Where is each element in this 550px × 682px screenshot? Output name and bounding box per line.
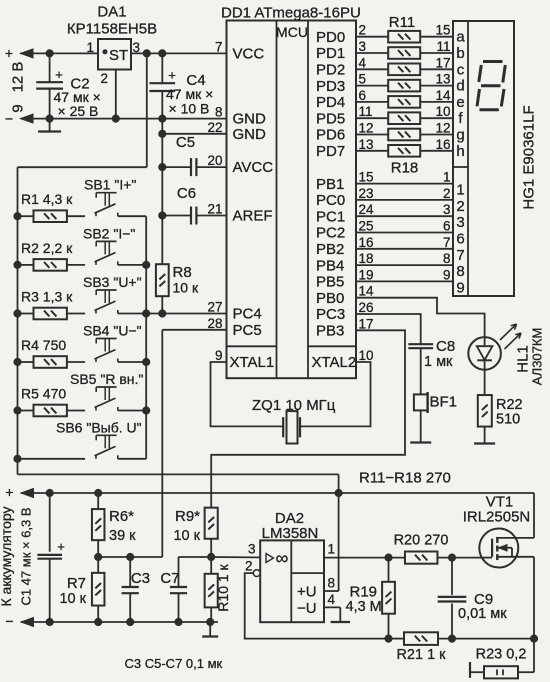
svg-text:20: 20	[207, 153, 222, 168]
svg-text:5: 5	[359, 72, 367, 87]
svg-text:8: 8	[456, 263, 464, 280]
svg-text:3: 3	[443, 202, 451, 217]
svg-text:9: 9	[456, 279, 464, 296]
svg-text:R5 470: R5 470	[21, 386, 66, 402]
svg-text:HG1 E90361LF: HG1 E90361LF	[521, 105, 538, 209]
svg-text:КР1158ЕН5В: КР1158ЕН5В	[67, 21, 157, 38]
svg-text:К аккумулятору: К аккумулятору	[0, 507, 14, 607]
svg-text:g: g	[456, 127, 464, 144]
svg-text:C7: C7	[160, 570, 179, 587]
svg-text:∞: ∞	[276, 548, 289, 568]
svg-text:2: 2	[100, 71, 108, 86]
svg-text:14: 14	[435, 88, 451, 103]
svg-text:3: 3	[456, 214, 464, 231]
svg-text:R7: R7	[67, 575, 86, 592]
svg-text:3: 3	[133, 40, 141, 55]
svg-text:R11−R18 270: R11−R18 270	[359, 470, 451, 487]
svg-text:PD5: PD5	[316, 110, 345, 127]
svg-text:SB6 "Выб. U": SB6 "Выб. U"	[56, 419, 142, 435]
svg-text:7: 7	[215, 39, 223, 54]
svg-text:PB5: PB5	[316, 274, 344, 291]
svg-text:PC3: PC3	[316, 306, 345, 323]
svg-text:27: 27	[207, 300, 222, 315]
svg-text:19: 19	[359, 267, 374, 282]
svg-text:XTAL1: XTAL1	[230, 354, 275, 371]
svg-text:PD2: PD2	[316, 62, 345, 79]
svg-text:12: 12	[359, 121, 374, 136]
svg-text:С3 С5-С7 0,1 мк: С3 С5-С7 0,1 мк	[125, 656, 223, 671]
svg-text:R4 750: R4 750	[21, 337, 66, 353]
svg-text:PB0: PB0	[316, 290, 344, 307]
svg-text:DA1: DA1	[97, 4, 126, 21]
svg-text:11: 11	[436, 39, 450, 54]
svg-text:PB2: PB2	[316, 241, 344, 258]
svg-text:21: 21	[207, 202, 222, 217]
svg-text:−U: −U	[297, 600, 317, 617]
svg-text:AVCC: AVCC	[233, 159, 274, 176]
svg-text:+: +	[5, 45, 13, 61]
svg-text:PB3: PB3	[316, 323, 344, 340]
svg-text:7: 7	[456, 247, 464, 264]
svg-text:PB1: PB1	[316, 176, 344, 193]
svg-text:XTAL2: XTAL2	[312, 354, 357, 371]
svg-text:PB4: PB4	[316, 257, 344, 274]
svg-text:3: 3	[248, 542, 256, 557]
svg-text:PD1: PD1	[316, 45, 345, 62]
svg-text:+: +	[57, 539, 65, 554]
svg-text:7: 7	[443, 235, 451, 250]
svg-text:c: c	[457, 61, 465, 78]
svg-text:PC2: PC2	[316, 225, 345, 242]
svg-text:MCU: MCU	[276, 24, 308, 40]
svg-text:R21 1 к: R21 1 к	[396, 647, 446, 663]
svg-text:PD4: PD4	[316, 94, 345, 111]
svg-text:a: a	[456, 29, 465, 46]
svg-text:2: 2	[245, 559, 253, 574]
svg-text:+: +	[168, 68, 176, 83]
svg-text:26: 26	[359, 300, 374, 315]
svg-text:12 В: 12 В	[10, 62, 27, 93]
svg-text:3: 3	[359, 39, 367, 54]
svg-text:9: 9	[443, 267, 451, 282]
svg-text:1: 1	[456, 182, 464, 199]
svg-text:PC4: PC4	[233, 306, 262, 323]
svg-text:1: 1	[328, 542, 336, 557]
svg-text:ST: ST	[109, 47, 128, 64]
svg-text:+: +	[5, 484, 13, 500]
svg-text:−: −	[5, 111, 13, 127]
svg-text:510: 510	[496, 412, 520, 428]
svg-text:SB1 "I+": SB1 "I+"	[84, 177, 136, 193]
svg-text:R18: R18	[391, 160, 419, 177]
svg-text:ZQ1 10 МГц: ZQ1 10 МГц	[252, 397, 336, 414]
svg-text:16: 16	[359, 235, 374, 250]
svg-text:10: 10	[435, 104, 450, 119]
svg-text:23: 23	[359, 186, 374, 201]
svg-text:8: 8	[443, 251, 451, 266]
svg-text:10 к: 10 к	[173, 280, 199, 296]
svg-text:+U: +U	[297, 584, 317, 601]
svg-text:15: 15	[359, 170, 374, 185]
svg-text:АЛ307КМ: АЛ307КМ	[530, 328, 545, 386]
svg-text:4,3 М: 4,3 М	[346, 599, 382, 615]
svg-text:VCC: VCC	[233, 45, 265, 62]
svg-text:2: 2	[359, 23, 367, 38]
svg-text:6: 6	[443, 219, 451, 234]
svg-text:C8: C8	[436, 338, 455, 355]
svg-text:25: 25	[359, 219, 374, 234]
svg-text:22: 22	[207, 120, 222, 135]
svg-text:h: h	[456, 143, 464, 160]
svg-text:14: 14	[359, 284, 375, 299]
svg-text:10 к: 10 к	[173, 528, 200, 544]
svg-text:PD6: PD6	[316, 127, 345, 144]
svg-text:−: −	[5, 613, 13, 629]
svg-text:1: 1	[443, 170, 451, 185]
svg-text:R1 4,3 к: R1 4,3 к	[21, 191, 73, 207]
svg-text:IRL2505N: IRL2505N	[463, 509, 531, 526]
svg-text:SB5 "R вн.": SB5 "R вн."	[70, 371, 143, 387]
svg-text:10: 10	[359, 348, 374, 363]
svg-text:15: 15	[435, 23, 450, 38]
svg-text:R19: R19	[350, 584, 378, 601]
svg-text:d: d	[456, 78, 464, 95]
svg-text:24: 24	[359, 202, 375, 217]
svg-text:4: 4	[359, 55, 367, 70]
svg-text:28: 28	[207, 316, 222, 331]
svg-text:C3: C3	[131, 570, 150, 587]
svg-text:+: +	[55, 67, 63, 82]
svg-text:8: 8	[328, 576, 336, 591]
svg-text:LM358N: LM358N	[262, 525, 319, 542]
svg-text:R11: R11	[389, 14, 415, 31]
svg-text:DD1 ATmega8-16PU: DD1 ATmega8-16PU	[221, 5, 361, 22]
svg-text:4: 4	[328, 592, 336, 607]
svg-text:17: 17	[359, 316, 374, 331]
svg-text:16: 16	[435, 137, 450, 152]
svg-text:SB2 "I−": SB2 "I−"	[83, 225, 135, 241]
svg-text:С1 47 мк × 6,3 В: С1 47 мк × 6,3 В	[19, 507, 34, 605]
svg-text:12: 12	[435, 121, 450, 136]
svg-text:e: e	[456, 94, 464, 111]
svg-text:BF1: BF1	[430, 394, 458, 411]
svg-text:11: 11	[359, 104, 373, 119]
svg-text:C6: C6	[177, 185, 196, 202]
svg-text:PC0: PC0	[316, 192, 345, 209]
svg-text:13: 13	[435, 72, 450, 87]
svg-text:R6*: R6*	[109, 508, 134, 525]
svg-text:10 к: 10 к	[59, 591, 86, 607]
svg-text:18: 18	[359, 251, 374, 266]
svg-text:SB4 "U−": SB4 "U−"	[83, 323, 142, 339]
svg-text:R3 1,3 к: R3 1,3 к	[21, 289, 73, 305]
svg-text:6: 6	[359, 88, 367, 103]
svg-text:8: 8	[215, 105, 223, 120]
svg-text:2: 2	[443, 186, 451, 201]
svg-text:R2 2,2 к: R2 2,2 к	[21, 240, 73, 256]
svg-text:AREF: AREF	[233, 208, 273, 225]
svg-text:R10 1 к: R10 1 к	[215, 563, 231, 611]
svg-text:SB3 "U+": SB3 "U+"	[83, 274, 142, 290]
svg-text:PD7: PD7	[316, 143, 345, 160]
svg-text:b: b	[456, 45, 464, 62]
svg-text:PC1: PC1	[316, 208, 345, 225]
svg-text:R9*: R9*	[175, 508, 200, 525]
svg-text:1 мк: 1 мк	[424, 354, 453, 370]
svg-text:1: 1	[86, 40, 94, 55]
svg-text:2: 2	[456, 198, 464, 215]
svg-text:PD3: PD3	[316, 78, 345, 95]
svg-text:PD0: PD0	[316, 29, 345, 46]
svg-text:39 к: 39 к	[109, 528, 136, 544]
svg-text:GND: GND	[233, 126, 267, 143]
svg-text:0,01 мк: 0,01 мк	[458, 606, 507, 622]
svg-text:6: 6	[456, 231, 464, 248]
svg-text:R23 0,2: R23 0,2	[476, 647, 527, 663]
svg-text:R20 270: R20 270	[394, 533, 449, 549]
svg-text:× 25 В: × 25 В	[58, 103, 99, 119]
svg-text:× 10 В: × 10 В	[169, 101, 210, 117]
svg-text:C5: C5	[176, 134, 195, 151]
svg-text:9: 9	[215, 348, 223, 363]
svg-text:13: 13	[359, 137, 374, 152]
svg-text:R8: R8	[173, 264, 192, 281]
svg-text:PC5: PC5	[233, 322, 262, 339]
svg-text:17: 17	[435, 55, 450, 70]
